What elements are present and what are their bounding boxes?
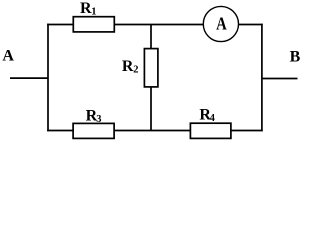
svg-text:A: A (2, 48, 14, 65)
label R4 (199, 107, 215, 125)
wire: top from ammeter to right corner (237, 24, 263, 26)
wire: terminal A lead (10, 77, 48, 79)
svg-text:R: R (80, 0, 92, 17)
wire: bottom from R4 to right corner (231, 130, 263, 132)
svg-text:1: 1 (91, 7, 96, 18)
resistor R3 (73, 123, 114, 138)
resistor R2 (144, 49, 158, 87)
label R2 (122, 58, 139, 76)
svg-text:B: B (290, 49, 301, 66)
svg-text:R: R (122, 58, 134, 75)
wire: middle vertical below R2 (150, 87, 152, 131)
wire: left vertical of loop (47, 24, 49, 132)
wire: right vertical of loop (261, 24, 263, 132)
resistor R4 (190, 123, 231, 138)
label R1 (80, 0, 97, 17)
label R3 (86, 108, 102, 126)
svg-text:A: A (216, 15, 227, 33)
svg-text:3: 3 (96, 114, 101, 125)
svg-text:4: 4 (210, 113, 216, 124)
resistor R1 (73, 17, 114, 32)
wire: bottom from left corner to R3 (47, 130, 74, 132)
wire: bottom from R3 to R4 (114, 130, 192, 132)
wire: top from left corner to R1 (47, 24, 74, 26)
ammeter A1 circle (203, 6, 238, 41)
wire: top from R1 to ammeter (114, 24, 206, 26)
svg-text:2: 2 (133, 65, 138, 76)
wire: middle vertical above R2 (150, 25, 152, 50)
wire: terminal B lead (262, 78, 298, 80)
